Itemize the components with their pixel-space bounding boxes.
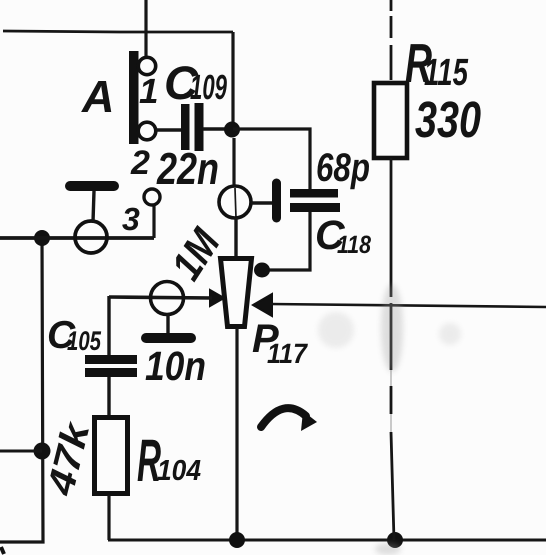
resistor R115 body [374, 83, 407, 158]
junction dot bottom middle [229, 532, 245, 548]
wire node circle up to chassis bar [93, 191, 94, 222]
wire R115 down to bottom bus with breaks [391, 158, 394, 540]
wire node down to screen node circle [232, 138, 235, 187]
svg-text:117: 117 [267, 338, 308, 369]
wire left horizontal lower [0, 450, 42, 453]
wire vertical drop from top edge to switch contact 1 [144, 0, 147, 57]
scan smudge halftone patches [318, 312, 461, 348]
wiper arrow into pot left side [210, 290, 224, 306]
capacitor C118 plates [290, 189, 340, 212]
wire node circle to chassis bar [166, 314, 169, 334]
node circle on left wire [75, 221, 107, 253]
screen plate bar vertical [272, 183, 281, 218]
wire bottom horizontal bus [108, 539, 546, 542]
svg-text:1: 1 [139, 72, 158, 111]
scan smudge on R115 wire [375, 284, 403, 555]
wire R104 to bottom bus [107, 495, 110, 540]
chassis bar below node circle [146, 333, 191, 343]
rotation arrow below pot [261, 408, 317, 431]
junction dot bottom right [387, 532, 403, 548]
wire corner from top bus down to node [231, 32, 234, 123]
junction dot node top [224, 122, 240, 138]
chassis bar top left [70, 181, 114, 191]
corner tick bottom left edge [1, 547, 4, 554]
switch A bar [129, 51, 139, 144]
wire contact 2 to C109 [156, 128, 181, 131]
junction dot left lower [34, 443, 51, 460]
svg-text:10n: 10n [145, 343, 206, 389]
svg-text:22n: 22n [156, 143, 219, 194]
svg-text:115: 115 [424, 52, 469, 94]
wire node circle to pot top [234, 218, 237, 257]
wire left vertical branch [0, 238, 43, 542]
wire wiper horizontal through node circle [109, 297, 212, 298]
wire C105 to R104 [107, 377, 110, 417]
wire node to C118 branch (right then down) [233, 129, 310, 190]
resistor R104 body [95, 418, 128, 494]
wire adjustment line to right edge [270, 304, 546, 307]
wire C109 to node [203, 127, 230, 130]
wire up to contact 3 [152, 205, 155, 238]
svg-text:A: A [81, 71, 115, 122]
switch contact 2 [138, 122, 156, 140]
switch contact 1 [138, 57, 155, 74]
svg-text:330: 330 [415, 91, 481, 148]
label C109 [164, 56, 227, 109]
wire left horizontal into switch node [0, 236, 154, 240]
capacitor C105 plates [85, 355, 137, 377]
label P117 [252, 317, 308, 369]
node circle on pot top wire [219, 186, 251, 218]
wire top horizontal bus [3, 31, 233, 32]
junction dot left upper [34, 230, 50, 246]
svg-text:3: 3 [122, 201, 140, 237]
wire C118 down to pot right terminal [264, 212, 310, 270]
adjustment arrow into pot right side [253, 294, 272, 316]
label C118 [315, 212, 371, 259]
wire wiper corner down to C105 [107, 296, 110, 356]
svg-text:104: 104 [157, 455, 201, 487]
pot terminal dot [254, 263, 270, 278]
svg-text:105: 105 [67, 326, 102, 356]
potentiometer P117 body [221, 259, 252, 327]
label R104 [137, 427, 201, 494]
wire pot bottom to bottom bus [235, 328, 238, 540]
svg-text:2: 2 [130, 144, 150, 182]
switch contact 3 [144, 189, 160, 205]
svg-text:118: 118 [337, 231, 371, 259]
label C105 [47, 314, 102, 357]
node circle on wiper wire [151, 282, 184, 315]
label R115 [405, 32, 469, 94]
capacitor C109 plates [181, 103, 204, 151]
wire node circle to plate bar [251, 201, 273, 204]
wire dashed feed above R115 [390, 0, 393, 80]
svg-text:68p: 68p [316, 146, 370, 190]
svg-text:109: 109 [190, 68, 227, 107]
